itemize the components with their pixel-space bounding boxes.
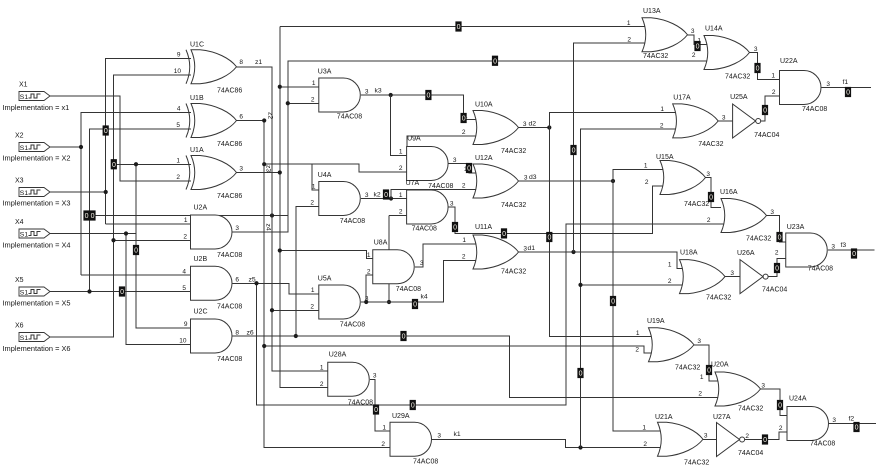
svg-text:74AC08: 74AC08 [217, 356, 242, 363]
wire z6 branch to U4A pin 2 [296, 206, 319, 336]
svg-text:2: 2 [627, 36, 631, 43]
svg-text:74AC08: 74AC08 [340, 322, 365, 329]
svg-text:3: 3 [365, 192, 369, 199]
svg-text:74AC86: 74AC86 [217, 193, 242, 200]
svg-text:3: 3 [697, 338, 701, 345]
svg-text:0: 0 [374, 407, 378, 414]
svg-text:1: 1 [644, 163, 648, 170]
marker box U13A out jog [695, 41, 701, 51]
svg-text:3: 3 [235, 225, 239, 232]
svg-text:1: 1 [312, 80, 316, 87]
svg-text:3: 3 [754, 46, 758, 53]
svg-text:1: 1 [399, 192, 403, 199]
svg-text:3: 3 [437, 433, 441, 440]
svg-text:X2: X2 [15, 133, 24, 140]
marker box U25A out riser [762, 105, 768, 115]
svg-text:U7A: U7A [406, 180, 420, 187]
svg-text:0: 0 [547, 235, 551, 242]
wire k1 bus up to U17A pin 2 [581, 129, 679, 447]
svg-text:U20A: U20A [711, 362, 729, 369]
svg-text:0: 0 [384, 192, 388, 199]
svg-text:2: 2 [462, 183, 466, 190]
svg-text:4: 4 [177, 106, 181, 113]
svg-text:0: 0 [493, 58, 497, 65]
wire U16A output to U23A pin 1 [766, 216, 786, 242]
wire U13A output to U14A pin 1 [687, 35, 710, 45]
wire k2 branch to U12A pin 2 [391, 189, 479, 198]
svg-text:U28A: U28A [329, 351, 347, 358]
wire U21A output to U27A input [703, 439, 717, 441]
marker box U15A pin2 line [501, 229, 507, 239]
input stimulus X5 (S1 clock source) [19, 287, 50, 296]
svg-text:f1: f1 [843, 79, 849, 86]
wire link net y215 [84, 215, 288, 217]
wire k1 from U29A output to U21A pin 2 [432, 439, 664, 447]
wire k4 from U5A output to U11A pin 2 [361, 260, 479, 302]
svg-text:74AC04: 74AC04 [754, 132, 779, 139]
svg-text:1: 1 [627, 20, 631, 27]
svg-text:2: 2 [367, 268, 371, 275]
marker box 3d1 riser [571, 145, 577, 155]
wire U17A output to U25A input [718, 120, 733, 122]
svg-text:3: 3 [706, 171, 710, 178]
svg-text:0: 0 [846, 90, 850, 97]
svg-text:2: 2 [183, 234, 187, 241]
svg-text:74AC32: 74AC32 [501, 148, 526, 155]
svg-text:0: 0 [572, 148, 576, 155]
svg-text:0: 0 [104, 128, 108, 135]
inverter U26A [740, 260, 768, 294]
svg-text:U15A: U15A [656, 154, 674, 161]
svg-text:U10A: U10A [475, 102, 493, 109]
wire U19A output to U20A pin 1 [694, 345, 722, 381]
svg-text:3: 3 [831, 243, 835, 250]
svg-text:3: 3 [761, 382, 765, 389]
and gate U2C [191, 319, 233, 353]
junction z3 at U3A pin 1 [278, 85, 282, 89]
wire 3d2 from U10A output [518, 127, 549, 129]
wire U9A output to U12A pin 1 [449, 164, 479, 173]
wire 3d2 bus up to U17A pin 1 [549, 113, 678, 128]
svg-text:0: 0 [778, 235, 782, 242]
or gate U11A [473, 235, 519, 269]
svg-text:f3: f3 [841, 242, 847, 249]
marker box U9A out jog [466, 163, 472, 173]
svg-text:U1A: U1A [190, 147, 204, 154]
wire node bus to U2C pin 9 [136, 164, 191, 328]
svg-text:74AC08: 74AC08 [217, 303, 242, 310]
svg-text:0: 0 [85, 213, 89, 220]
svg-text:6: 6 [239, 114, 243, 121]
wire U7A pin 2 feed [389, 214, 407, 216]
or gate U16A [721, 199, 767, 233]
svg-text:0: 0 [778, 403, 782, 410]
input stimulus X6 (S1 clock source) [19, 333, 50, 342]
marker box U20A out drop [777, 400, 783, 410]
svg-text:2: 2 [698, 391, 702, 398]
wire U20A output to U24A pin 1 [760, 389, 787, 415]
svg-text:74AC32: 74AC32 [698, 141, 723, 148]
and gate U28A [328, 362, 370, 396]
wire U28A output to U29A pin 1 [370, 379, 390, 431]
svg-text:74AC32: 74AC32 [501, 269, 526, 276]
svg-text:2: 2 [310, 304, 314, 311]
junction X5 wire [87, 289, 91, 293]
and gate U9A [407, 147, 449, 181]
svg-text:74AC08: 74AC08 [810, 441, 835, 448]
svg-text:5: 5 [176, 122, 180, 129]
xor gate U1A [186, 156, 237, 190]
svg-text:0: 0 [502, 231, 506, 238]
marker box U10A pin1 drop [461, 113, 467, 123]
wire X2 bus to U1B pin 4 and U2B pin 4 [81, 112, 191, 275]
svg-text:74AC32: 74AC32 [501, 202, 526, 209]
svg-text:0: 0 [709, 195, 713, 202]
marker box k1 bus [578, 368, 584, 378]
svg-text:74AC32: 74AC32 [684, 201, 709, 208]
junction z5 [254, 281, 258, 285]
junction k4 at U8A branch [364, 300, 368, 304]
svg-text:3: 3 [239, 166, 243, 173]
svg-text:10: 10 [174, 68, 182, 75]
marker box U2C pin9 bus [133, 245, 139, 255]
svg-text:d3: d3 [529, 174, 537, 181]
svg-text:0: 0 [852, 251, 856, 258]
svg-text:74AC32: 74AC32 [738, 406, 763, 413]
junction z1 with link net [270, 213, 274, 217]
wire U7A output to U15A pin 2 [449, 186, 666, 234]
svg-text:1: 1 [184, 217, 188, 224]
wire X4 branch to U2C pin 10 [126, 234, 191, 345]
wire U2A pin 2 feed [114, 239, 191, 241]
wire U25A output to U22A pin 2 [761, 96, 780, 121]
junction z3 [278, 170, 282, 174]
svg-text:2: 2 [692, 52, 696, 59]
wire U15A output to U16A pin 1 [705, 178, 721, 208]
svg-text:U1C: U1C [190, 41, 204, 48]
svg-text:9: 9 [177, 52, 181, 59]
wire U8A output to U11A pin 1 [415, 244, 479, 267]
svg-text:74AC08: 74AC08 [337, 114, 362, 121]
wire 3d1 branch up to U13A pin 2 [574, 43, 649, 252]
svg-text:74AC08: 74AC08 [802, 106, 827, 113]
svg-text:3: 3 [365, 88, 369, 95]
wire z1 branch to U5A pin 2 [272, 309, 319, 311]
svg-text:0: 0 [457, 24, 461, 31]
svg-text:k1: k1 [454, 431, 461, 438]
input stimulus X1 (S1 clock source) [19, 92, 50, 101]
junction k3 [389, 93, 393, 97]
svg-text:2: 2 [381, 441, 385, 448]
svg-text:Implementation = X3: Implementation = X3 [3, 199, 71, 208]
svg-text:k3: k3 [375, 88, 382, 95]
svg-text:f2: f2 [849, 416, 855, 423]
wire z3 top feed U13A pin 1 [280, 26, 648, 28]
svg-text:5: 5 [182, 285, 186, 292]
wire k1 branch to U18A pin 2 [581, 284, 686, 286]
svg-text:1: 1 [399, 149, 403, 156]
and gate U8A [373, 250, 415, 284]
marker box U23A pin2 riser [774, 263, 780, 273]
marker box link net right [90, 211, 96, 221]
marker box U27A out wire [762, 435, 768, 445]
wire U1A pin 1 feed [114, 163, 192, 165]
wire k3 from U3A output to U10A pin 1 [361, 95, 479, 119]
svg-text:1: 1 [700, 374, 704, 381]
svg-text:9: 9 [184, 321, 188, 328]
svg-text:2: 2 [772, 89, 776, 96]
svg-text:Implementation = X2: Implementation = X2 [3, 154, 71, 163]
svg-text:U22A: U22A [780, 58, 798, 65]
svg-text:0: 0 [91, 213, 95, 220]
svg-text:2: 2 [707, 217, 711, 224]
svg-text:2: 2 [745, 433, 749, 440]
marker box f1 wire [845, 87, 851, 97]
wire z4 from U2A output up to U14A pin 2 [233, 61, 711, 232]
marker box k3 line [426, 90, 432, 100]
svg-text:74AC08: 74AC08 [428, 183, 453, 190]
junction 3d1 at U13A branch [571, 250, 575, 254]
svg-text:U3A: U3A [318, 69, 332, 76]
svg-text:Implementation = X5: Implementation = X5 [3, 299, 71, 308]
svg-text:2: 2 [635, 346, 639, 353]
or gate U12A [473, 164, 519, 198]
svg-text:2: 2 [779, 425, 783, 432]
svg-text:10: 10 [179, 338, 187, 345]
svg-text:74AC32: 74AC32 [684, 459, 709, 466]
svg-text:U25A: U25A [730, 94, 748, 101]
svg-text:U14A: U14A [705, 26, 723, 33]
wire 3d3 bus down to U21A pin 1 [613, 181, 664, 431]
svg-text:2: 2 [645, 179, 649, 186]
marker box 3d3 bus [610, 296, 616, 306]
marker box link net left [84, 211, 90, 221]
svg-text:0: 0 [402, 334, 406, 341]
svg-text:U23A: U23A [787, 224, 805, 231]
wire k2 from U4A output to U7A pin 1 [361, 198, 407, 200]
svg-text:U11A: U11A [475, 224, 492, 231]
wire U14A output to U22A pin 1 [749, 53, 780, 80]
svg-text:0: 0 [579, 371, 583, 378]
svg-text:U27A: U27A [713, 414, 731, 421]
wire 3d3 branch up to U15A pin 1 [613, 169, 666, 181]
svg-text:0: 0 [855, 425, 859, 432]
marker box k2 line [383, 190, 389, 200]
svg-text:3: 3 [691, 28, 695, 35]
junction z3 at U8A pin 1 [278, 248, 282, 252]
wire X3 bus to U1C pin 9 and U2A pin 1 [106, 59, 191, 224]
junction X6 bus at U2A pin 2 [111, 238, 115, 242]
svg-text:z5: z5 [249, 277, 256, 284]
svg-text:74AC86: 74AC86 [217, 141, 242, 148]
svg-text:74AC86: 74AC86 [217, 87, 242, 94]
svg-text:U2A: U2A [194, 205, 208, 212]
svg-text:d1: d1 [528, 245, 536, 252]
junction 3d2 [547, 125, 551, 129]
wire z4 branch to U3A pin 2 [288, 102, 319, 104]
junction X3 bus [104, 190, 108, 194]
svg-text:1: 1 [668, 262, 672, 269]
svg-text:3: 3 [826, 81, 830, 88]
wire U8A pin 2 feed from k4 [366, 275, 373, 302]
wire U2A pin 1 feed [106, 223, 191, 225]
svg-text:Implementation = X6: Implementation = X6 [3, 344, 71, 353]
svg-text:Implementation = x1: Implementation = x1 [3, 103, 70, 112]
svg-text:4: 4 [182, 268, 186, 275]
svg-text:0: 0 [411, 403, 415, 410]
svg-text:1: 1 [176, 158, 180, 165]
junction z6 at U4A pin 2 branch [294, 334, 298, 338]
junction z4 at U3A pin 2 [286, 101, 290, 105]
junction U1A pin1 wire [134, 162, 138, 166]
marker box U1A pin1 junction [111, 159, 117, 169]
svg-text:0: 0 [707, 368, 711, 375]
svg-text:U21A: U21A [655, 414, 673, 421]
svg-text:U9A: U9A [407, 136, 421, 143]
or gate U10A [473, 111, 519, 145]
wire z2 branch to U9A pin 2 [264, 164, 406, 172]
junction 3d3 [611, 179, 615, 183]
svg-text:d2: d2 [529, 121, 537, 128]
svg-text:X6: X6 [15, 323, 24, 330]
svg-text:0: 0 [611, 299, 615, 306]
wire z5 bus to U16A pin 2 [257, 224, 728, 405]
marker box U28A out drop [373, 405, 379, 415]
svg-text:74AC08: 74AC08 [340, 218, 365, 225]
marker box f2 wire [854, 422, 860, 432]
svg-text:X5: X5 [15, 277, 24, 284]
svg-text:3: 3 [524, 174, 528, 181]
svg-text:1: 1 [636, 330, 640, 337]
svg-text:1: 1 [311, 287, 315, 294]
svg-text:U26A: U26A [737, 250, 755, 257]
svg-text:0: 0 [112, 162, 116, 169]
svg-text:2: 2 [399, 209, 403, 216]
marker box k4 line [412, 299, 418, 309]
svg-text:1: 1 [771, 73, 775, 80]
junction X4 wire [124, 231, 128, 235]
marker box z6 bus [401, 331, 407, 341]
svg-text:2: 2 [775, 250, 779, 257]
wire U10A pin 2 feed [407, 136, 479, 147]
wire 3d3 from U12A output [518, 180, 613, 182]
svg-text:1: 1 [642, 424, 646, 431]
svg-text:3: 3 [523, 121, 527, 128]
svg-text:U1B: U1B [190, 95, 204, 102]
wire X5 to U2B pin 5 [50, 291, 191, 293]
marker box z5 bus [410, 400, 416, 410]
svg-text:1: 1 [382, 424, 386, 431]
junction z2 corner [262, 118, 266, 122]
and gate U7A [407, 190, 449, 224]
svg-text:74AC08: 74AC08 [348, 399, 373, 406]
marker box U15A out drop [708, 192, 714, 202]
svg-text:74AC32: 74AC32 [643, 53, 668, 60]
svg-text:U13A: U13A [643, 8, 661, 15]
svg-text:3: 3 [420, 260, 424, 267]
svg-text:74AC08: 74AC08 [413, 458, 438, 465]
and gate U3A [319, 78, 361, 112]
svg-text:0: 0 [756, 66, 760, 73]
svg-text:74AC32: 74AC32 [725, 74, 750, 81]
svg-text:0: 0 [763, 108, 767, 115]
wire z2 from U1B output down to U29A pin 2 [236, 121, 390, 448]
svg-text:0: 0 [453, 225, 457, 232]
svg-text:0: 0 [462, 116, 466, 123]
marker box X5 wire [119, 287, 125, 297]
marker box f3 wire [851, 249, 857, 259]
svg-text:74AC04: 74AC04 [762, 287, 787, 294]
svg-text:3: 3 [704, 433, 708, 440]
svg-text:1: 1 [367, 252, 371, 259]
svg-text:U16A: U16A [720, 189, 738, 196]
marker box U14A out drop [755, 63, 761, 73]
xor gate U1C [186, 50, 237, 84]
wire f3 output [828, 249, 875, 251]
svg-text:0: 0 [120, 289, 124, 296]
svg-text:3: 3 [722, 114, 726, 121]
junction k4 at U7A drop [387, 300, 391, 304]
svg-text:X3: X3 [15, 178, 24, 185]
svg-text:0: 0 [427, 93, 431, 100]
input stimulus X4 (S1 clock source) [19, 229, 50, 238]
wire z2 branch bus to U19A pin 2 [264, 346, 654, 353]
svg-text:X1: X1 [19, 82, 28, 89]
junction k2 [389, 196, 393, 200]
svg-text:1: 1 [462, 237, 466, 244]
or gate U17A [673, 104, 719, 138]
or gate U13A [642, 18, 688, 52]
svg-text:U24A: U24A [789, 396, 807, 403]
svg-text:2: 2 [311, 97, 315, 104]
svg-text:U18A: U18A [680, 250, 698, 257]
marker box U7A out drop [452, 222, 458, 232]
svg-text:2: 2 [176, 174, 180, 181]
and gate U2A [191, 215, 233, 249]
and gate U2B [191, 266, 233, 300]
svg-text:Implementation = X4: Implementation = X4 [3, 241, 71, 250]
wire f1 output [822, 87, 872, 89]
svg-text:2: 2 [668, 278, 672, 285]
svg-text:0: 0 [696, 44, 700, 51]
wire z3 from U1A output [236, 172, 280, 174]
svg-text:0: 0 [763, 437, 767, 444]
svg-text:U2B: U2B [194, 256, 208, 263]
wire 3d1 from U11A output to U18A pin 1 [518, 252, 686, 268]
and gate U4A [319, 182, 361, 216]
svg-text:74AC08: 74AC08 [217, 252, 242, 259]
svg-text:1: 1 [320, 364, 324, 371]
and gate U22A [780, 71, 822, 105]
svg-text:z6: z6 [247, 330, 254, 337]
wire z3 branch to U8A pin 1 [280, 251, 373, 259]
svg-text:74AC08: 74AC08 [808, 266, 833, 273]
marker box z3 top line [456, 22, 462, 32]
svg-text:1: 1 [660, 106, 664, 113]
wire X2 stub [50, 146, 81, 148]
input stimulus X2 (S1 clock source) [19, 143, 50, 152]
svg-text:U12A: U12A [475, 155, 493, 162]
and gate U23A [786, 233, 828, 267]
svg-text:1: 1 [312, 184, 316, 191]
marker box U19A out drop [706, 365, 712, 375]
svg-text:8: 8 [239, 59, 243, 66]
or gate U14A [704, 36, 750, 70]
wire z2 branch drop to U4A pin 1 [312, 164, 319, 190]
svg-text:0: 0 [467, 166, 471, 173]
svg-text:2: 2 [320, 381, 324, 388]
inverter U25A [733, 104, 761, 138]
